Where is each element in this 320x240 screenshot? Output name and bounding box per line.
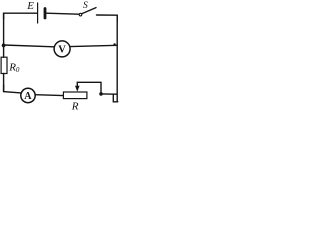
node junction left rail / voltmeter <box>2 44 6 48</box>
wire top-left (corner to battery) <box>4 13 37 19</box>
ammeter A1 circle <box>21 88 35 102</box>
wire battery to switch <box>46 13 79 14</box>
battery E short plate <box>44 9 47 19</box>
svg-text:A: A <box>24 91 32 102</box>
wire rheostat lead to right rail <box>101 93 117 95</box>
node junction wiper / bottom wire <box>99 92 103 96</box>
svg-text:R: R <box>71 100 79 110</box>
svg-text:R0: R0 <box>8 62 20 74</box>
svg-text:S: S <box>83 1 88 11</box>
wire ammeter to rheostat <box>35 94 63 97</box>
rheostat wiper wire <box>77 82 101 94</box>
right rail <box>116 15 118 102</box>
rheostat R box <box>63 92 87 99</box>
switch S blade <box>82 8 96 14</box>
resistor R0 box <box>1 57 7 73</box>
wire bottom-left corner to ammeter <box>4 85 21 93</box>
left rail lower segment <box>3 74 5 92</box>
voltmeter branch left wire <box>4 45 54 47</box>
svg-text:E: E <box>26 0 34 12</box>
svg-text:V: V <box>58 45 66 56</box>
bottom-right corner hook <box>113 94 118 102</box>
node junction voltmeter wire / right rail <box>113 43 115 45</box>
battery E long plate <box>37 3 39 23</box>
voltmeter branch right wire <box>70 45 117 46</box>
switch S left terminal <box>79 13 82 16</box>
left rail upper segment <box>3 13 5 57</box>
voltmeter U1 circle <box>54 41 70 57</box>
rheostat wiper arrowhead <box>75 86 80 92</box>
wire switch to top-right corner <box>97 15 118 21</box>
